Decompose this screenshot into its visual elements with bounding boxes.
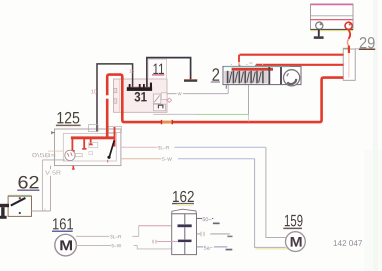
wire inside 125 left	[42, 159, 64, 161]
wire dark B (comb to ground)	[147, 58, 191, 88]
wire red tap upper (29 to component 2)	[239, 55, 344, 67]
wire dark A (down-left over to 125)	[97, 64, 133, 132]
motor 159 label	[283, 215, 302, 229]
label 5-W (161 lower wire)	[112, 244, 122, 247]
label 50	[203, 217, 212, 221]
wire 62 to junction	[32, 210, 51, 212]
node 29 label	[355, 37, 375, 49]
label 5-W (lower wire)	[162, 157, 172, 160]
connector blocks on 125 top	[89, 125, 122, 133]
label s (on 62 wire)	[44, 208, 46, 210]
wire red main feed (29 down-left to relay and 125)	[107, 75, 343, 137]
motor 161 label	[52, 218, 73, 231]
fuse/bus box (top right)	[311, 4, 354, 31]
switch 62 box	[8, 195, 31, 216]
ground bus 31 (comb)	[127, 83, 152, 91]
tick at 125 top-left	[52, 131, 55, 134]
connector 162 body	[172, 204, 197, 255]
relay contact box a	[153, 94, 161, 104]
relay 125 box	[55, 129, 121, 166]
wire W (relay to component 2)	[167, 85, 228, 94]
plate number	[334, 240, 362, 246]
wire from 0,5B down to 62 wire	[41, 160, 43, 211]
component 2 label	[211, 68, 220, 82]
contact blocks inside 125	[75, 142, 98, 156]
switch 62 label	[17, 176, 39, 190]
wire 162 right middle	[197, 232, 233, 237]
component 2 lower pin tick	[225, 85, 227, 89]
wire pin drop from component 2	[248, 85, 250, 122]
wire upper (125 to motor 159 top)	[121, 147, 286, 237]
label 3L-R (161 upper wire)	[110, 235, 121, 238]
label W	[178, 92, 182, 95]
wire 161 lower to 162	[76, 246, 172, 249]
wire lower (125 to motor 159 bottom)	[121, 159, 291, 249]
red stub below 125	[72, 166, 75, 170]
label V-5R	[45, 170, 60, 174]
red bus inside 125	[70, 127, 115, 152]
wire 162 right 50	[197, 218, 220, 224]
connector box 29	[343, 46, 355, 81]
connector ticks (162 middle-left)	[153, 240, 178, 244]
component 2 gauge circle	[284, 70, 300, 86]
wire 162 right 5a	[197, 247, 233, 251]
relay contact box b	[161, 93, 167, 100]
scan tint right edge	[373, 0, 378, 271]
wire red tap lower (29 to component 2 bus)	[256, 65, 344, 69]
motor 159	[286, 232, 306, 252]
connector box 11	[148, 59, 167, 79]
node 31 label	[134, 92, 146, 102]
relay pin marks left	[114, 88, 117, 103]
component 2 (switch assembly with gauge)	[223, 66, 301, 84]
inline connector on red wire	[162, 120, 173, 124]
label 10 (on wire A vertical)	[91, 90, 96, 94]
relay 125 label	[56, 112, 81, 126]
label 5a	[204, 246, 213, 250]
switch 62 contacts and arm	[11, 197, 26, 214]
label 10 (on wire A bend)	[129, 69, 134, 73]
relay contact box c	[154, 104, 166, 111]
relay box (pink)	[114, 79, 168, 112]
terminal clamp right (red) + squiggle down	[345, 22, 352, 46]
label 0,5B (left of 125)	[32, 153, 55, 157]
wire from 125 bottom to 62 wire (V-5R)	[50, 166, 52, 211]
terminal clamp left (dark)	[314, 22, 324, 39]
feed terminal (thick dark, left of 62)	[0, 204, 9, 219]
label 3L-R (upper wire)	[158, 146, 169, 149]
motor 161	[55, 234, 77, 256]
switch arm inside 125	[107, 140, 114, 162]
ground (plate)	[184, 80, 197, 82]
wire 161 upper to 162	[76, 226, 172, 237]
connector 162 label	[172, 191, 194, 204]
wire green (relay to node at component 2 drop)	[153, 113, 248, 115]
pin diamond (right of relay)	[167, 98, 171, 102]
component 2 top pin nubs	[231, 62, 263, 66]
motor symbol inside 125	[65, 150, 75, 160]
